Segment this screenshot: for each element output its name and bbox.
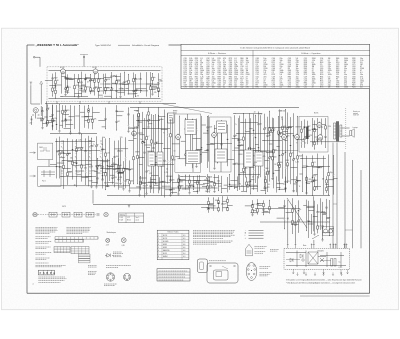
resistor R66: [301, 129, 303, 132]
wire: [207, 143, 215, 145]
wire: [279, 132, 283, 134]
resistor R72: [179, 186, 181, 189]
wire: [77, 174, 82, 176]
junction: [216, 162, 219, 165]
resistor R95: [263, 203, 265, 206]
junction blob: [193, 186, 194, 187]
wire: [60, 124, 63, 126]
trimmer arrow: [66, 153, 69, 156]
wire: [197, 153, 202, 155]
junction blob: [67, 86, 68, 87]
wire: [284, 206, 286, 217]
svg-text:R46R5R10C29R42R45R33R94C11R44R: R46R5R10C29R42R45R33R94C11R44R7C82C95R73…: [336, 58, 339, 89]
junction: [286, 181, 289, 184]
junction blob: [76, 163, 77, 164]
power rail tick: [333, 203, 337, 205]
wire: [253, 137, 255, 170]
main top bus wire: [130, 107, 299, 109]
junction: [272, 117, 275, 120]
title separator dash: [118, 44, 130, 46]
label text d: [36, 253, 52, 255]
connecting wire: [240, 122, 258, 124]
resistor R64: [290, 153, 292, 156]
wire: [267, 136, 269, 171]
stacked option box: [78, 256, 90, 258]
svg-text:ECH81: ECH81: [130, 128, 136, 130]
power rail wire: [352, 160, 354, 248]
connector pin: [333, 244, 335, 249]
wire destination arrow: [332, 272, 334, 275]
wire: [161, 118, 163, 161]
trimmer: [282, 154, 284, 156]
wire: [158, 92, 160, 97]
dipole symbol in box: [40, 147, 50, 151]
wire: [285, 189, 287, 193]
resistor R3: [55, 90, 57, 93]
inductor L16: [245, 129, 246, 132]
wire: [56, 105, 58, 129]
resistor R74: [197, 181, 199, 184]
capacitor C27: [65, 119, 67, 122]
wire: [317, 213, 319, 226]
wire: [88, 122, 90, 128]
svg-text:In den Geräten sind gestrichel: In den Geräten sind gestrichelte Werte i…: [240, 46, 310, 49]
wire: [66, 123, 74, 125]
instruction text block: [36, 228, 58, 234]
wire: [209, 191, 211, 193]
wire: [207, 174, 209, 177]
DIN socket A pin 1: [108, 275, 109, 276]
wire: [154, 185, 159, 187]
wire: [278, 117, 280, 132]
resistor R89: [218, 208, 220, 211]
resistor R26: [105, 173, 107, 176]
wire: [151, 179, 157, 181]
junction blob: [255, 137, 256, 138]
inductor L30: [333, 174, 334, 177]
grid rule v: [63, 247, 65, 253]
wire: [269, 150, 274, 152]
junction: [241, 121, 244, 124]
wire: [119, 172, 124, 174]
socket contact marks: [32, 114, 39, 116]
wire: [317, 154, 319, 167]
junction: [233, 187, 236, 190]
trimmer: [155, 142, 157, 144]
wire: [85, 74, 87, 78]
wire: [44, 116, 47, 118]
wire: [47, 124, 49, 127]
junction: [234, 112, 237, 115]
junction blob: [253, 130, 254, 131]
wire: [128, 74, 130, 80]
junction: [61, 95, 64, 98]
chart bar cell rule: [70, 237, 72, 239]
tube Ro3 EF89 envelope: [176, 135, 181, 140]
power box internal wire f: [296, 251, 298, 268]
resistor R17: [152, 77, 154, 80]
capacitor C53: [170, 188, 172, 191]
approval stamp box: [38, 270, 54, 275]
capacitor C45: [238, 139, 240, 142]
resistor R88: [218, 201, 220, 204]
wire: [124, 167, 130, 169]
frame top edge segment b: [169, 44, 182, 46]
wire: [217, 121, 219, 163]
wire: [312, 155, 314, 162]
values table subheader rule: [181, 55, 370, 57]
wire: [252, 201, 254, 205]
wire: [295, 126, 301, 128]
junction: [117, 177, 120, 180]
junction blob: [97, 168, 98, 169]
inductor L7: [125, 157, 126, 160]
wire: [278, 134, 280, 162]
wire: [129, 127, 137, 129]
resistor R31: [52, 119, 54, 122]
wire: [325, 129, 327, 136]
wire: [283, 131, 289, 133]
wire: [207, 207, 214, 209]
svg-text:Röhren / Tubes: Röhren / Tubes: [168, 232, 179, 234]
wire: [214, 127, 217, 129]
values table footer rule: [181, 85, 370, 87]
tuning potentiometer: [104, 212, 108, 216]
wire: [146, 140, 148, 171]
socket pin 5: [248, 273, 250, 275]
junction blob: [88, 110, 89, 111]
stacked option box: [78, 259, 90, 261]
wire: [128, 108, 130, 114]
inductor L14: [170, 160, 171, 163]
wire: [133, 82, 135, 91]
wire: [74, 74, 76, 86]
resistor R11: [98, 88, 100, 91]
wire: [90, 74, 92, 79]
wire: [102, 169, 104, 180]
svg-text:F1: F1: [69, 153, 71, 155]
antenna symbol: [30, 82, 33, 86]
wire: [265, 176, 267, 180]
socket caption: [260, 267, 271, 269]
ground: [321, 239, 323, 242]
wire: [204, 179, 209, 181]
wire: [250, 166, 255, 168]
wire: [214, 183, 222, 185]
wire: [117, 79, 121, 81]
svg-text:„WEEKEND T 50 L Automatik“: „WEEKEND T 50 L Automatik“: [36, 43, 80, 47]
wire: [148, 121, 150, 125]
output transformer secondary: [340, 125, 342, 137]
wire: [285, 182, 287, 188]
values table header rule: [181, 49, 370, 51]
diagonal mains wire: [287, 198, 307, 228]
resistor R32: [62, 110, 64, 113]
trimmer arrow: [95, 144, 98, 147]
wire: [62, 114, 64, 121]
wire: [243, 171, 245, 191]
svg-text:S2: S2: [275, 149, 277, 151]
wire: [123, 162, 125, 168]
wire: [116, 112, 118, 122]
wire: [152, 73, 154, 77]
svg-text:◊: ◊: [245, 234, 246, 237]
wire: [103, 172, 107, 174]
wire: [258, 162, 260, 178]
wire: [85, 173, 87, 185]
wire: [263, 210, 265, 215]
trimmer arrow: [141, 141, 144, 144]
wire: [221, 132, 223, 144]
legend item text: [249, 232, 264, 234]
wire: [99, 86, 103, 88]
svg-text:100: 100: [116, 156, 119, 158]
trimmer: [65, 110, 67, 112]
svg-text:C20R10R75C56C12R73C74R29R54R40: C20R10R75C56C12R73C74R29R54R40R75R13R8C6…: [184, 58, 187, 89]
wire: [246, 130, 250, 132]
resistor R54: [267, 171, 269, 174]
wire: [56, 138, 58, 178]
instruction text block 2: [67, 228, 91, 234]
dipole antenna symbol: [80, 55, 88, 57]
capacitor C35: [153, 147, 155, 150]
wire: [115, 76, 121, 78]
resistor R44: [192, 152, 194, 155]
wire: [325, 183, 328, 185]
wire: [133, 114, 135, 126]
resistor R86: [328, 173, 330, 176]
junction: [66, 92, 69, 95]
wire: [129, 160, 131, 169]
junction: [268, 199, 271, 202]
junction: [108, 137, 111, 140]
dipole terminal: [83, 56, 85, 58]
wire: [108, 101, 110, 104]
arrow lead-in 2: [30, 175, 36, 177]
trimmer: [207, 177, 209, 179]
wire: [139, 177, 146, 179]
wire: [298, 139, 304, 141]
wire: [35, 113, 37, 119]
wire: [55, 94, 57, 99]
wire: [208, 115, 210, 161]
label text e: [36, 258, 50, 260]
ground: [128, 205, 130, 208]
wire: [84, 106, 86, 128]
wire: [182, 188, 190, 190]
wire: [269, 143, 273, 145]
capacitor C12: [31, 118, 33, 121]
svg-text:22p: 22p: [136, 110, 139, 112]
wire: [178, 182, 180, 186]
wire: [159, 118, 164, 120]
svg-text:560: 560: [157, 90, 160, 92]
connecting wire: [262, 140, 282, 142]
wire: [250, 212, 257, 214]
junction: [321, 237, 324, 240]
resistor R62: [282, 126, 284, 129]
wire: [185, 155, 187, 166]
junction: [188, 174, 191, 177]
wire: [152, 155, 159, 157]
wire: [215, 199, 219, 201]
wire: [298, 213, 300, 220]
trimmer arrow: [93, 87, 96, 90]
capacitor C11: [140, 78, 142, 81]
junction: [284, 108, 287, 111]
wire: [208, 181, 214, 183]
wire: [185, 118, 187, 128]
wire: [253, 174, 255, 190]
junction: [181, 175, 184, 178]
junction: [134, 95, 137, 98]
chart bar cell rule: [89, 237, 91, 239]
wire: [121, 148, 129, 150]
wire: [257, 199, 259, 204]
junction: [111, 157, 114, 160]
resistor R2: [55, 81, 57, 84]
svg-text:47: 47: [241, 186, 243, 188]
mains plug body: [323, 227, 334, 236]
junction blob: [56, 124, 57, 125]
junction: [301, 157, 304, 160]
alignment table rule c: [157, 277, 190, 279]
wire: [306, 156, 308, 178]
trimmer arrow: [96, 165, 99, 168]
capacitor C22: [102, 178, 104, 181]
junction blob: [55, 86, 56, 87]
wire: [105, 119, 107, 129]
tube Ro5 EABC80 envelope: [282, 135, 287, 140]
ground: [213, 167, 215, 170]
junction: [139, 175, 142, 178]
svg-text:R24: R24: [174, 112, 177, 114]
wire: [72, 139, 74, 161]
junction: [150, 113, 153, 116]
capacitor C70: [52, 113, 54, 116]
wire: [66, 79, 73, 81]
power rail wire: [332, 143, 334, 249]
ratio detector secondary: [255, 152, 263, 166]
svg-text:C31: C31: [217, 180, 220, 182]
svg-text:6,3: 6,3: [136, 128, 138, 130]
wire: [79, 89, 85, 91]
wire: [135, 92, 137, 97]
svg-text:47: 47: [252, 177, 254, 179]
wire: [320, 198, 322, 230]
svg-text:R24: R24: [87, 87, 90, 89]
junction: [110, 97, 113, 100]
wire: [129, 170, 131, 181]
tone switch segment: [86, 212, 94, 217]
capacitor C58: [314, 179, 316, 182]
wire: [185, 175, 187, 190]
svg-text:R28C98C58C75C63C40C36C66C68C83: R28C98C58C75C63C40C36C66C68C83R38C65R49R…: [352, 58, 355, 89]
wire: [307, 207, 315, 209]
wire: [287, 112, 289, 127]
wire: [79, 78, 82, 80]
inductor L15: [196, 128, 197, 131]
DIN socket B pin 4: [129, 277, 130, 278]
resistor R25: [105, 153, 107, 156]
osc coil windings: [150, 155, 154, 161]
tube Ro1b EC92 electrodes: [94, 68, 97, 75]
resistor R73: [189, 180, 191, 183]
wire: [318, 138, 323, 140]
trimmer: [142, 142, 144, 144]
wire: [301, 132, 303, 141]
junction: [238, 188, 241, 191]
wire: [102, 159, 104, 166]
wire: [286, 159, 289, 161]
wire: [158, 107, 160, 129]
svg-text:2n: 2n: [254, 112, 256, 114]
wire: [110, 174, 115, 176]
wire: [92, 122, 94, 129]
tube socket outline: [246, 263, 257, 281]
svg-text:S2: S2: [211, 181, 213, 183]
capacitor C36: [161, 159, 163, 162]
power box internal wire c: [320, 255, 344, 257]
wire: [65, 89, 67, 93]
wire: [210, 203, 214, 205]
wire: [31, 116, 33, 125]
fuse holder b: [329, 229, 333, 233]
wire: [152, 80, 154, 85]
wire: [246, 158, 253, 160]
capacitor C37: [164, 159, 166, 162]
junction blob: [63, 153, 64, 154]
svg-text:EC92: EC92: [93, 67, 98, 69]
ground: [313, 233, 315, 236]
resistor R63: [287, 163, 289, 166]
junction: [157, 95, 160, 98]
wire: [147, 146, 151, 148]
wire: [262, 211, 270, 213]
wire: [66, 119, 72, 121]
tube Ro3 EF89 electrodes: [176, 134, 179, 141]
junction: [251, 199, 254, 202]
connector pin below: [323, 269, 325, 274]
svg-text:F1: F1: [259, 204, 261, 206]
capacitor C67: [257, 203, 259, 206]
inductor L29: [317, 166, 318, 169]
wire: [117, 110, 124, 112]
svg-text:S2: S2: [274, 164, 276, 166]
wire: [147, 150, 153, 152]
stamp divider c: [51, 270, 53, 275]
wire: [240, 172, 245, 174]
chassis screw b: [234, 265, 236, 267]
wire: [64, 127, 71, 129]
chart bar 2 cell rule: [77, 240, 79, 242]
wire: [133, 130, 135, 157]
resistor R45: [196, 150, 198, 153]
wire: [170, 181, 172, 190]
wire: [48, 160, 50, 167]
wire: [89, 80, 95, 82]
wire: [107, 159, 109, 169]
svg-text:1k: 1k: [324, 211, 326, 213]
wire: [286, 133, 293, 135]
wire: [98, 120, 105, 122]
junction blob: [81, 88, 82, 89]
junction blob: [322, 228, 323, 229]
wire: [172, 182, 179, 184]
tone switch contacts: [64, 213, 69, 216]
junction blob: [306, 182, 307, 183]
junction: [211, 142, 214, 145]
